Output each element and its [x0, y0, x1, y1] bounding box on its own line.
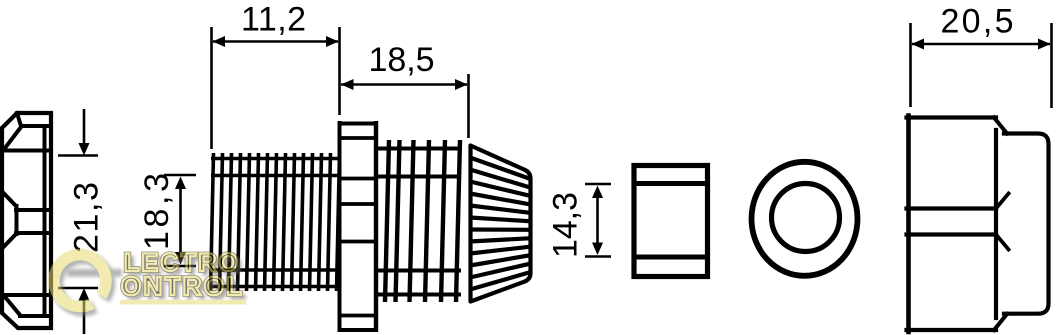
sealing ring [752, 162, 858, 276]
dimension 18,5 [341, 74, 469, 138]
gland body: entry thread [211, 153, 340, 291]
svg-text:18,3: 18,3 [138, 173, 176, 250]
dimension 21,3 [58, 109, 98, 334]
middle thread [378, 140, 461, 302]
svg-text:14,3: 14,3 [547, 192, 585, 258]
right locknut (side view) [907, 116, 1049, 333]
dimension 11,2 [212, 27, 340, 149]
svg-text:21,3: 21,3 [68, 182, 106, 253]
hex flange [338, 121, 379, 332]
dimension 20,5 [911, 23, 1052, 108]
left locknut (side view) [2, 113, 51, 328]
svg-text:11,2: 11,2 [241, 1, 306, 39]
dimension 14,3 [585, 184, 611, 257]
svg-text:18,5: 18,5 [369, 41, 435, 79]
cone strain relief [470, 146, 531, 302]
seal insert [632, 166, 710, 277]
svg-text:20,5: 20,5 [941, 3, 1014, 41]
svg-text:ONTROL: ONTROL [121, 271, 246, 301]
dimension 18,3 [164, 175, 196, 266]
